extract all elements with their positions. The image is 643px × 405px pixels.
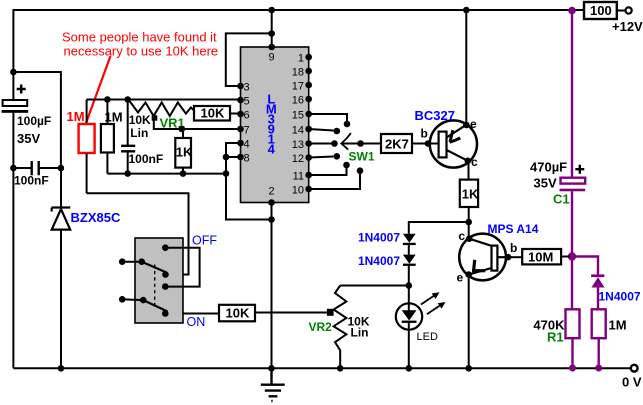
ground symbol xyxy=(261,368,285,401)
wire pin11 to SW1 xyxy=(309,166,347,175)
switch SW1 contacts xyxy=(344,121,351,128)
svg-text:100nF: 100nF xyxy=(14,174,49,188)
svg-text:VR2: VR2 xyxy=(309,320,333,334)
LED D3 xyxy=(396,303,422,329)
svg-text:c: c xyxy=(471,155,478,169)
svg-text:8: 8 xyxy=(244,153,250,165)
svg-text:5: 5 xyxy=(244,96,250,108)
svg-text:35V: 35V xyxy=(17,131,40,146)
node junction zener bottom rail xyxy=(58,365,65,372)
pin dots right xyxy=(305,54,312,61)
diode D2 1N4007 xyxy=(403,255,416,264)
svg-text:4: 4 xyxy=(244,139,250,151)
wire 100nF left lead xyxy=(13,167,30,169)
pin dots left xyxy=(237,83,244,90)
svg-text:0 V: 0 V xyxy=(622,375,642,390)
diode zener BZX85C xyxy=(52,208,70,212)
svg-text:C1: C1 xyxy=(553,192,570,207)
wire pin4 pin8 link xyxy=(226,143,272,220)
svg-text:13: 13 xyxy=(292,139,304,151)
wire pin13 to SW1 xyxy=(309,143,335,145)
node junction 1M black top xyxy=(104,96,111,103)
svg-text:OFF: OFF xyxy=(192,234,217,248)
svg-text:Lin: Lin xyxy=(351,326,369,340)
svg-text:100µF: 100µF xyxy=(17,114,51,128)
node junction VR1 left xyxy=(124,96,131,103)
svg-text:BC327: BC327 xyxy=(415,108,455,123)
capacitor C1 xyxy=(561,178,586,184)
VR2 wiper xyxy=(327,309,334,316)
capacitor C1 plus xyxy=(575,165,584,174)
wire purple C1 down xyxy=(571,191,573,309)
switch SW1 wiper arrow xyxy=(341,133,351,150)
resistor 10M xyxy=(522,249,561,264)
wire bottom 0V rail xyxy=(13,367,630,369)
svg-text:1N4007: 1N4007 xyxy=(599,290,641,304)
node junction bus x226 xyxy=(223,170,230,177)
svg-text:+12V: +12V xyxy=(612,19,643,34)
wire purple branch to diode xyxy=(572,257,598,275)
svg-text:100nF: 100nF xyxy=(129,152,164,166)
capacitor 100uF xyxy=(3,100,28,106)
BC327 collector xyxy=(447,150,468,161)
transistor Q1 BC327 xyxy=(430,120,477,167)
switch SW1 pivot xyxy=(357,140,364,147)
svg-text:10K: 10K xyxy=(201,106,225,121)
svg-text:MPS A14: MPS A14 xyxy=(488,222,539,236)
svg-text:35V: 35V xyxy=(534,176,557,191)
svg-text:16: 16 xyxy=(292,95,304,107)
wire pin3 branch xyxy=(226,33,272,86)
svg-text:1M: 1M xyxy=(67,109,85,124)
resistor 2K7 xyxy=(381,134,412,153)
svg-text:1K: 1K xyxy=(462,187,479,202)
wire diode branch horizontal xyxy=(409,222,469,234)
node junction purple 10M xyxy=(568,252,576,260)
svg-text:ON: ON xyxy=(187,315,206,329)
wire pin15 to SW1 xyxy=(309,114,347,123)
IC U1 LM3914 body xyxy=(241,47,309,203)
capacitor 100nF left xyxy=(32,161,39,175)
svg-text:1K: 1K xyxy=(176,145,193,160)
svg-text:4: 4 xyxy=(268,142,276,157)
svg-text:14: 14 xyxy=(292,125,304,137)
svg-text:15: 15 xyxy=(292,110,304,122)
resistor 10K lower xyxy=(219,305,255,322)
svg-text:6: 6 xyxy=(244,110,250,122)
wire to 100nF branch xyxy=(13,72,61,168)
wire pin12 to SW1 xyxy=(309,157,334,158)
svg-text:Some people have found it: Some people have found it xyxy=(62,30,217,45)
svg-text:1M: 1M xyxy=(105,110,123,125)
wire 1K to MPSA14 xyxy=(468,207,470,239)
transistor Q2 MPSA14 xyxy=(459,234,506,281)
resistor 1M black xyxy=(106,100,108,125)
wire pin14 to SW1 xyxy=(309,129,334,131)
node junction 100nF bottom xyxy=(124,170,131,177)
resistor 1M red xyxy=(86,100,88,125)
node junction VR2 top xyxy=(406,282,413,289)
potentiometer VR1 zigzag xyxy=(128,99,194,116)
svg-text:470µF: 470µF xyxy=(530,160,567,175)
svg-text:b: b xyxy=(421,127,428,141)
wire SW1 to 2K7 xyxy=(361,143,382,145)
MPSA14 base xyxy=(497,256,508,258)
svg-text:1: 1 xyxy=(298,53,304,65)
wire pin10 to SW1 xyxy=(309,172,360,189)
node junction 1K bottom xyxy=(180,170,187,177)
svg-text:17: 17 xyxy=(292,81,304,93)
wire pin9 to rail xyxy=(271,10,273,47)
switch S2 pole A xyxy=(119,258,126,265)
node junction top purple tap xyxy=(568,7,576,15)
wire lower bus y173.6 xyxy=(107,173,226,175)
svg-text:necessary to use 10K here: necessary to use 10K here xyxy=(64,44,219,59)
annotation pointer line xyxy=(84,56,111,129)
wire VR1 left vertical xyxy=(127,100,129,146)
wire zener lower lead xyxy=(60,230,62,369)
wire 10K box to wiper xyxy=(255,312,327,314)
wire MPSA14 emitter to rail xyxy=(468,275,470,369)
capacitor 100uF plus sign xyxy=(17,85,26,94)
svg-text:BZX85C: BZX85C xyxy=(71,210,121,225)
svg-text:18: 18 xyxy=(292,67,304,79)
svg-text:1M: 1M xyxy=(609,318,627,333)
wire red 1M to switch xyxy=(87,193,189,274)
capacitor 100nF under VR1 xyxy=(121,146,135,152)
wire 10M to purple node xyxy=(561,256,570,258)
svg-text:Lin: Lin xyxy=(130,126,148,140)
potentiometer VR2 xyxy=(334,286,347,369)
wire zener upper lead xyxy=(60,168,62,207)
resistor R1 470K xyxy=(566,309,580,338)
diode D4 1N4007 purple xyxy=(591,274,604,277)
resistor 1K right xyxy=(460,180,478,207)
wire to VR2 xyxy=(340,285,409,287)
BC327 emitter xyxy=(447,125,467,138)
svg-text:7: 7 xyxy=(244,125,250,137)
svg-text:e: e xyxy=(457,271,464,285)
wire purple C1 feed xyxy=(571,10,573,178)
switch S2 contacts xyxy=(162,244,169,251)
resistor 10K top box xyxy=(194,106,230,121)
LED arrows xyxy=(421,295,435,305)
svg-text:LED: LED xyxy=(417,331,438,343)
svg-text:R1: R1 xyxy=(547,330,564,345)
svg-text:2K7: 2K7 xyxy=(385,137,409,152)
MPSA14 collector xyxy=(469,239,491,246)
node junction left at 168 xyxy=(10,165,17,172)
wire left rail lower xyxy=(12,112,14,368)
svg-text:11: 11 xyxy=(293,171,304,183)
switch S2 OFF loop xyxy=(165,248,199,287)
resistor 1M right xyxy=(592,309,606,338)
wire collector to 1K xyxy=(468,161,470,180)
svg-text:2: 2 xyxy=(268,186,274,198)
node junction purple rail 2 xyxy=(595,365,602,372)
resistor 1K left xyxy=(179,126,186,133)
svg-text:9: 9 xyxy=(268,52,274,64)
svg-text:e: e xyxy=(470,117,477,131)
svg-text:c: c xyxy=(458,229,465,243)
svg-text:b: b xyxy=(510,241,517,255)
svg-text:100: 100 xyxy=(590,3,612,18)
terminal +12V xyxy=(617,10,626,12)
wire pin5 row xyxy=(87,99,241,101)
svg-text:1N4007: 1N4007 xyxy=(358,231,400,245)
switch S2 pole B xyxy=(119,296,126,303)
svg-text:10M: 10M xyxy=(528,250,553,265)
resistor 100 top right xyxy=(584,2,617,19)
switch S2 body xyxy=(135,238,183,323)
node junction purple rail 1 xyxy=(569,365,576,372)
svg-text:10K: 10K xyxy=(226,306,250,321)
svg-text:SW1: SW1 xyxy=(349,150,375,164)
node junction zener top xyxy=(58,165,65,172)
svg-text:12: 12 xyxy=(292,153,304,165)
wire pin2 to ground rail xyxy=(271,203,273,369)
wire 10K to pin6 xyxy=(230,113,241,115)
wire switch to 10K xyxy=(165,313,219,315)
node junction left top xyxy=(10,69,17,76)
svg-text:3: 3 xyxy=(244,82,250,94)
terminal 0V xyxy=(631,365,638,372)
svg-text:1N4007: 1N4007 xyxy=(358,254,400,268)
switch S2 gang link dashed xyxy=(154,265,156,309)
svg-text:10: 10 xyxy=(292,185,304,197)
MPSA14 emitter xyxy=(469,268,492,275)
wire 100nF right lead xyxy=(40,167,61,169)
wire top supply rail xyxy=(13,10,584,100)
diode D1 1N4007 xyxy=(403,234,416,243)
potentiometer VR1 wiper xyxy=(152,115,158,120)
svg-text:10K: 10K xyxy=(129,113,151,127)
wire 2K7 to base xyxy=(412,143,428,145)
wire emitter to top rail xyxy=(465,10,467,125)
